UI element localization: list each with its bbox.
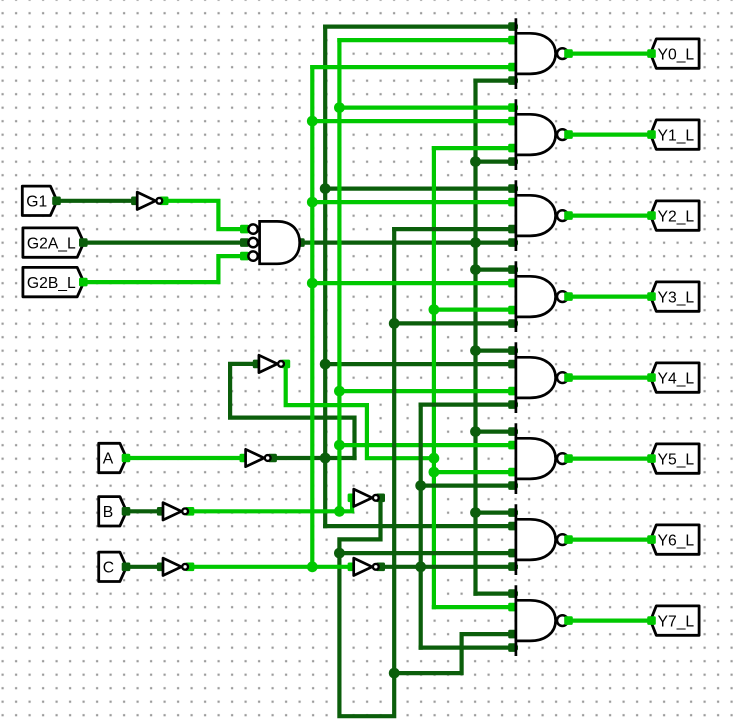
wire net EN stub to U11 pin1 — [476, 268, 516, 272]
pin dot A — [122, 454, 131, 463]
wire net EN stub to U15 pin1 — [476, 591, 516, 595]
svg-text:Y7_L: Y7_L — [658, 613, 695, 630]
NAND U14 input pins — [508, 508, 517, 571]
nand-gate U14 (Y6_L) — [516, 506, 573, 574]
wire Y6_L output — [569, 537, 651, 541]
junction at 339.4,511.3 — [334, 506, 345, 517]
inverter U3 (A_T) — [253, 355, 290, 372]
NAND U9 input pins — [508, 103, 517, 166]
wire net B_T branch to U15 pin3 — [394, 634, 461, 673]
wire net B_T from U5 output down — [339, 229, 394, 716]
output pin Y4_L — [651, 363, 700, 392]
wire net A_L loop to inverter U3 input — [230, 364, 354, 458]
wire Y4_L output — [569, 376, 651, 380]
wire net A_T stub to U15 pin2 — [434, 605, 516, 609]
wire net B_T stub to U11 pin4 — [394, 321, 516, 325]
junction at 312.3,566.8 — [307, 561, 318, 572]
wire net B_L stub to U9 pin1 — [339, 105, 516, 109]
nand-gate U12 (Y4_L) — [516, 344, 573, 412]
wire net C_L stub to U8 pin3 — [312, 65, 516, 69]
junction at 339.4,445.1 — [334, 440, 345, 451]
svg-text:B: B — [103, 504, 113, 521]
junction at 475.5,350.6 — [470, 345, 481, 356]
junction at 325.2,458 — [320, 453, 331, 464]
NAND U13 input pins — [508, 427, 517, 490]
junction at 312.3,283.1 — [307, 278, 318, 289]
wire Y7_L output — [569, 618, 651, 622]
wire net A_T stub to U11 pin3 — [434, 308, 516, 312]
output pin Y1_L — [651, 120, 700, 149]
nand-gate U13 (Y5_L) — [516, 425, 573, 493]
pin dot Y7_L — [647, 616, 656, 625]
wire net A_T stub to U9 pin3 — [434, 146, 516, 150]
nand-gate U10 (Y2_L) — [516, 182, 573, 250]
junction at 433.9,472.1 — [429, 467, 440, 478]
junction at 312.3,202.1 — [307, 197, 318, 208]
junction at 394.2,323.4 — [389, 318, 400, 329]
pin dot Y1_L — [647, 130, 656, 139]
input pin G2B_L — [23, 267, 84, 296]
junction at 339.4,391.1 — [334, 386, 345, 397]
junction at 420.7,566.8 — [415, 561, 426, 572]
output pin Y2_L — [651, 201, 700, 230]
junction at 475.5,161.6 — [470, 156, 481, 167]
svg-text:Y6_L: Y6_L — [658, 532, 695, 549]
wire G2B_L to AND U7 input 3 — [84, 256, 245, 282]
output pin Y0_L — [651, 39, 700, 68]
junction at 433.9,309.6 — [429, 304, 440, 315]
inverter U1 (G1) — [131, 192, 168, 209]
svg-text:C: C — [103, 560, 114, 577]
wire net B_L from U4 output to inverter U5 — [190, 499, 352, 511]
wire net A_L stub to U10 pin1 — [325, 187, 516, 191]
pin dot Y4_L — [647, 373, 656, 382]
input pin C — [99, 552, 127, 581]
wire net A_L stub to U8 pin1 — [325, 25, 516, 29]
wire net B_L stub to U12 pin3 — [339, 389, 516, 393]
wire Y3_L output — [569, 295, 651, 299]
output pin Y6_L — [651, 525, 700, 554]
output pin Y7_L — [651, 606, 700, 635]
NAND U12 input pins — [508, 346, 517, 409]
wire B to inverter U4 — [127, 509, 162, 513]
svg-text:Y0_L: Y0_L — [658, 46, 695, 63]
nand-gate U11 (Y3_L) — [516, 263, 573, 331]
input pin G1 — [22, 186, 57, 215]
junction at 325.2,364.1 — [320, 359, 331, 370]
wire net C_T vertical bus — [419, 405, 423, 648]
wire net A_L from U2 output — [272, 456, 354, 460]
wire Y2_L output — [569, 214, 651, 218]
pin dot Y3_L — [647, 292, 656, 301]
inverter U6 (C) — [157, 558, 194, 575]
svg-text:Y1_L: Y1_L — [658, 127, 695, 144]
input pin G2A_L — [23, 228, 84, 257]
wire net EN from U7 output to U10 pin4 — [302, 241, 516, 245]
junction at 325.2,188.6 — [320, 183, 331, 194]
svg-text:Y2_L: Y2_L — [658, 208, 695, 225]
svg-text:G2A_L: G2A_L — [27, 235, 76, 252]
wire net A_L stub to U12 pin2 — [325, 362, 516, 366]
pin dot G1 — [52, 197, 61, 206]
output pin Y5_L — [651, 444, 700, 473]
wire net C_L stub to U11 pin2 — [312, 281, 516, 285]
inverter U5 (B_T) — [348, 489, 385, 506]
wire net EN stub to U13 pin1 — [476, 430, 516, 434]
wire Y1_L output — [569, 133, 651, 137]
wire net C_T stub to U15 pin4 — [421, 645, 516, 649]
NAND U15 input pins — [508, 589, 517, 652]
NAND U8 input pins — [508, 22, 517, 85]
wire A to inverter U2 — [127, 456, 244, 460]
junction at 475.5,431.6 — [470, 426, 481, 437]
wire net EN stub to U9 pin4 — [476, 160, 516, 164]
wire Y5_L output — [569, 457, 651, 461]
wire net B_L stub to U13 pin2 — [339, 443, 516, 447]
pin dot Y0_L — [647, 49, 656, 58]
input pin A — [99, 443, 127, 472]
NAND U10 input pins — [508, 184, 517, 247]
svg-text:Y4_L: Y4_L — [658, 370, 695, 387]
junction at 394.2,673.1 — [389, 668, 400, 679]
nand-gate U15 (Y7_L) — [516, 587, 573, 655]
pin dot C — [122, 563, 131, 572]
wire Y0_L output — [569, 51, 651, 55]
junction at 475.5,512.6 — [470, 507, 481, 518]
junction at 339.4,107.6 — [334, 102, 345, 113]
wire net C_L from U6 output to inverter U16 — [190, 565, 352, 569]
wire net EN stub to U14 pin1 — [476, 510, 516, 514]
and-gate U7 (enable) — [240, 221, 305, 263]
inverter U16 (C_T) — [348, 558, 385, 575]
junction at 475.5,269.6 — [470, 264, 481, 275]
pin dot Y5_L — [647, 454, 656, 463]
pin dot G2B_L — [79, 278, 88, 287]
input pin B — [99, 497, 127, 526]
inverter U2 (A) — [240, 449, 277, 466]
wire net B_L stub to U8 pin2 — [339, 38, 516, 42]
wire net C_T stub to U13 pin4 — [421, 484, 516, 488]
wire net C_T from U16 output to U14 pin4 — [381, 565, 516, 569]
junction at 312.3,121.1 — [307, 116, 318, 127]
wire net B_T stub to U10 pin3 — [394, 227, 516, 231]
svg-text:Y5_L: Y5_L — [658, 451, 695, 468]
pin dot Y2_L — [647, 211, 656, 220]
wire net A_T stub to U13 pin3 — [434, 470, 516, 474]
inverter U4 (B) — [157, 503, 194, 520]
junction at 420.7,485.6 — [415, 480, 426, 491]
wire net EN vertical bus — [473, 81, 477, 594]
pin dot Y6_L — [647, 535, 656, 544]
wire G2A_L to AND U7 input 2 — [84, 241, 245, 245]
wire net C_L stub to U9 pin2 — [312, 119, 516, 123]
wire net C_L vertical bus — [310, 67, 314, 567]
wire C to inverter U6 — [127, 565, 162, 569]
junction at 475.5,242.6 — [470, 237, 481, 248]
wire net B_T stub to U15 pin3 end — [462, 632, 516, 636]
pin dot G2A_L — [79, 238, 88, 247]
wire net C_T stub to U12 pin4 — [421, 403, 516, 407]
nand-gate U9 (Y1_L) — [516, 101, 573, 169]
svg-text:G1: G1 — [26, 194, 47, 211]
output pin Y3_L — [651, 282, 700, 311]
junction at 339.4,553.1 — [334, 548, 345, 559]
wire net A_L stub to U14 pin2 — [325, 524, 516, 528]
svg-text:G2B_L: G2B_L — [27, 275, 76, 292]
wire U1 output to AND U7 input 1 — [164, 201, 244, 229]
wire net C_L stub to U10 pin2 — [312, 200, 516, 204]
svg-text:Y3_L: Y3_L — [658, 289, 695, 306]
wire net EN stub to U8 pin4 — [476, 78, 516, 82]
nand-gate U8 (Y0_L) — [516, 20, 573, 88]
wire net A_T from U3 output to bus — [286, 364, 434, 458]
wire net EN stub to U12 pin1 — [476, 349, 516, 353]
wire net A_T vertical bus — [432, 148, 436, 607]
wire net A_L vertical bus — [323, 27, 327, 526]
wire G1 to inverter U1 — [57, 199, 135, 203]
junction at 433.9,458.2 — [429, 453, 440, 464]
svg-text:A: A — [103, 451, 114, 468]
NAND U11 input pins — [508, 265, 517, 328]
wire net B_L vertical bus — [337, 40, 341, 511]
pin dot B — [122, 507, 131, 516]
wire net B_T stub to U14 pin3 — [339, 551, 516, 555]
